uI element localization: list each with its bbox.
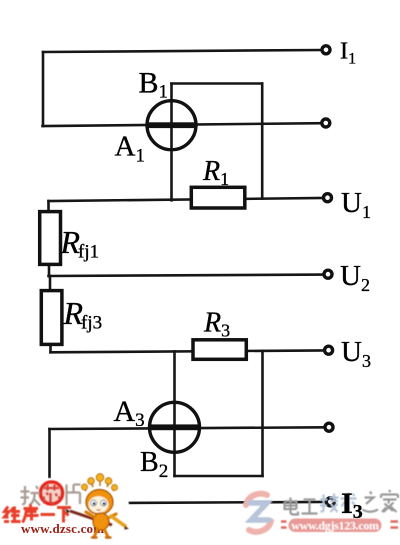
wire meter B1 output row bbox=[43, 123, 322, 126]
transducer B1 circle bbox=[147, 101, 197, 150]
svg-text:B1: B1 bbox=[139, 67, 169, 103]
svg-text:R1: R1 bbox=[202, 156, 229, 189]
wire vertical right branch of B2 loop bbox=[261, 351, 264, 476]
svg-text:I1: I1 bbox=[340, 38, 356, 68]
svg-text:U3: U3 bbox=[341, 336, 371, 371]
wire top I1 line bbox=[43, 50, 322, 52]
wire vertical right of B1 down to U1 line bbox=[261, 84, 264, 199]
wire A3 row through meter B2 bbox=[50, 427, 326, 429]
watermark mascot pen bbox=[65, 509, 112, 526]
wire left vertical top bbox=[42, 52, 45, 126]
wire bottom of B2 loop bbox=[175, 475, 263, 478]
svg-text:A1: A1 bbox=[115, 131, 145, 167]
terminal B2 output bbox=[325, 423, 333, 431]
wire vertical through meter B1 bbox=[170, 84, 173, 201]
watermark char zhao bbox=[21, 486, 41, 506]
watermark dgjs banner bbox=[281, 519, 398, 533]
wire U2 row bbox=[49, 275, 325, 276]
wire vertical through meter B2 bbox=[173, 351, 176, 476]
terminal I3 bbox=[326, 498, 334, 506]
resistor R3 bbox=[193, 340, 246, 360]
watermark char gong bbox=[302, 500, 318, 514]
wire U3 row bbox=[51, 350, 325, 352]
terminal B1 output bbox=[322, 119, 330, 127]
watermark dgjs logo bbox=[246, 494, 271, 532]
watermark weiku chars bbox=[4, 505, 71, 523]
wire corner down to Rfj1 bbox=[47, 201, 50, 212]
watermark char dian bbox=[285, 498, 299, 515]
wire U1 row bbox=[49, 198, 324, 201]
svg-text:B2: B2 bbox=[140, 447, 168, 482]
svg-text:Rfj3: Rfj3 bbox=[63, 295, 103, 334]
watermark dzsc white halo backdrop bbox=[0, 474, 129, 540]
svg-text:A3: A3 bbox=[114, 395, 145, 431]
watermark char jia bbox=[381, 490, 398, 512]
watermark dzsc red circle bbox=[41, 482, 63, 504]
svg-text:U2: U2 bbox=[340, 260, 370, 295]
watermark char xin bbox=[44, 485, 61, 504]
terminal U2 bbox=[324, 270, 332, 278]
wire Rfj3 bottom corner to U3 row bbox=[49, 344, 52, 352]
terminal U1 bbox=[324, 194, 332, 202]
svg-text:www.dgjs123.com: www.dgjs123.com bbox=[291, 519, 379, 533]
watermark char shu bbox=[341, 493, 357, 512]
svg-text:I3: I3 bbox=[341, 487, 363, 523]
watermark char ji bbox=[320, 494, 339, 513]
resistor Rfj1 bbox=[40, 212, 61, 265]
resistor R1 bbox=[191, 187, 245, 208]
wire left vertical bottom bbox=[48, 429, 51, 503]
watermark mascot bbox=[82, 474, 130, 538]
terminal I1 bbox=[322, 46, 330, 54]
wire I3 row bbox=[50, 502, 327, 503]
resistor Rfj3 bbox=[41, 291, 62, 345]
terminal U3 bbox=[325, 346, 333, 354]
watermark char zhi bbox=[363, 492, 379, 512]
wire U2 row down to Rfj3 bbox=[49, 276, 52, 291]
watermark char pian bbox=[67, 485, 81, 506]
svg-text:R3: R3 bbox=[203, 308, 230, 341]
wire Rfj1 bottom to U2 row bbox=[48, 264, 51, 276]
svg-text:www.dzsc.com: www.dzsc.com bbox=[21, 521, 104, 536]
svg-text:Rfj1: Rfj1 bbox=[60, 224, 100, 263]
wire stub top horizontal bbox=[172, 82, 263, 85]
svg-text:U1: U1 bbox=[341, 187, 371, 222]
transducer B2 circle bbox=[150, 402, 200, 452]
